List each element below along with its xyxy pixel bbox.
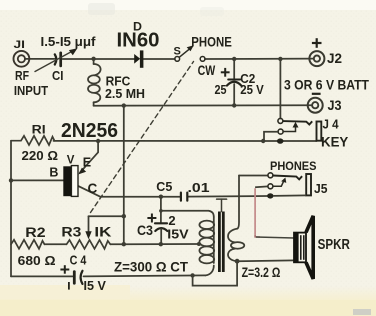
plus sign J2 [312,38,322,48]
capacitor C2 leads [233,59,235,78]
svg-text:C: C [88,181,98,196]
switch S throw contact [200,57,205,62]
wire: S contact to J2 [205,58,314,60]
C4 polarity tick [68,282,70,290]
svg-text:J5: J5 [314,181,328,196]
svg-text:I.5-I5 μμf: I.5-I5 μμf [41,35,97,49]
node: C3 bias rail junction [159,242,163,246]
inductor RFC coil [93,59,95,64]
svg-text:Z=3.2 Ω: Z=3.2 Ω [242,264,281,280]
wire: J4 lower contact to rail [264,132,278,141]
svg-text:IN60: IN60 [117,29,160,52]
svg-text:JI: JI [14,39,26,51]
svg-text:S: S [174,46,181,58]
plus sign C4 [60,265,69,274]
jack J5 tip arm [273,176,302,180]
wire: collector rail to C5 [101,196,181,198]
svg-text:PHONE: PHONE [191,34,232,49]
svg-text:RF: RF [15,69,29,83]
wire: transformer primary bottom exit [206,266,214,276]
node: transformer CT junction [197,242,201,246]
node: base junction [9,178,13,182]
wire: R2 to R3 [45,243,67,245]
capacitor C2 plates [228,79,240,81]
wire: C5 to phones jack dot [188,195,268,198]
wire: C3 bottom lead [160,229,162,244]
jack J1 RF input [14,51,30,67]
switch S arm arrowhead [187,45,194,51]
R3 wiper arrowhead [85,231,91,239]
wire: speaker top feed (red) [254,188,256,235]
wire: J1 to C1 [25,58,55,60]
jack J5 sleeve bar [306,174,311,195]
svg-text:B: B [49,166,58,180]
transistor Q1 2N256 body [63,166,71,196]
wire: lower rail RFC to J3 [94,104,313,107]
svg-text:I5V: I5V [167,227,189,242]
node: under-transformer tap [190,273,194,277]
jack J4 tip contact [278,118,283,123]
svg-text:2N256: 2N256 [61,119,118,142]
svg-text:RI: RI [32,122,46,136]
svg-text:Z=300 Ω CT: Z=300 Ω CT [114,259,188,275]
emitter arrowhead [78,168,86,175]
wire: collector lead [78,186,101,197]
svg-text:C 4: C 4 [70,253,87,267]
wire: phones jack tip contact down to secondary [237,176,239,229]
svg-text:E: E [83,156,91,170]
svg-text:KEY: KEY [321,133,349,149]
wire: J5 lower contact arm to red wire [255,185,268,188]
svg-text:C3: C3 [137,223,153,238]
transformer T1 core [218,212,225,273]
wire: middle rail R1 to key jack [54,140,317,142]
transformer core frame tie [217,199,227,211]
svg-text:J 4: J 4 [323,117,340,132]
wire: C1 to diode D [63,58,135,60]
jack J4 tip arm [283,121,312,124]
jack J5 contact arm with arrow [273,181,284,186]
jack J4 sleeve bar [317,122,322,141]
svg-text:3 OR 6 V BATT: 3 OR 6 V BATT [284,78,369,93]
svg-text:25 V: 25 V [240,82,264,97]
resistor R2 [11,240,45,249]
plus sign C3 [147,214,156,223]
node: J4 rail blob [277,138,284,143]
node: C2 bottom junction [232,103,236,107]
jack J4 lower contact [278,129,283,134]
svg-text:J2: J2 [327,51,342,66]
svg-text:I5 V: I5 V [84,279,107,293]
svg-text:SPKR: SPKR [318,237,351,253]
svg-text:R2: R2 [25,225,45,240]
svg-text:2.5 MH: 2.5 MH [105,86,145,101]
jack J5 tip contact [268,173,273,178]
wire: left rail vertical [10,141,12,277]
svg-text:CW: CW [198,63,216,78]
svg-text:.01: .01 [188,180,210,195]
minus sign J3 [312,93,321,95]
wire: secondary bottom to speaker [237,259,294,262]
node: transformer top tap [159,209,163,213]
svg-text:680 Ω: 680 Ω [18,253,56,268]
transformer T1 primary winding [213,217,215,263]
svg-text:IK: IK [94,224,111,239]
node: RFC tap junction [91,57,95,61]
wire: vertical x124 rail to R3 wiper rail [123,106,125,245]
transformer T1 secondary winding [228,229,237,243]
node: secondary bottom junction [235,259,240,264]
wire: tap to transformer primary top [161,211,214,217]
node: emitter junction [96,139,100,143]
node: C3 tap junction [159,195,163,199]
node: lower rail x124 junction [122,103,126,107]
capacitor C4 plates [73,272,76,284]
C1 arrow [35,51,74,72]
dashed gang link R3 to S [91,62,194,213]
variable capacitor C1 plates [55,54,57,64]
wire: C3 top lead [160,197,162,223]
wire: J2 junction down to key jack contact [279,59,281,118]
wire: under transformer link [193,263,238,286]
svg-text:J3: J3 [328,98,342,113]
wire: base lead [11,179,64,181]
capacitor C3 plates [155,222,167,224]
diode D 1N60 [134,54,140,64]
svg-text:CI: CI [52,69,63,83]
node: wiper junction [122,214,126,218]
node: x124 bias rail junction [122,242,126,246]
svg-text:R3: R3 [61,224,82,239]
speaker SPKR voice coil [294,233,306,263]
svg-text:220 Ω: 220 Ω [22,148,59,163]
jack J5 lower contact [268,184,273,189]
C1 arrowhead [69,48,78,55]
wire: bottom rail C4 to transformer [84,275,206,276]
node: J2/J4 branch junction [278,57,282,61]
svg-text:PHONES: PHONES [270,159,317,173]
terminal J2 battery plus [309,51,324,66]
jack J4 contact arm with arrow [283,127,295,132]
switch S pole [175,48,191,61]
resistor R1 [11,136,55,145]
node: C2 top junction [232,57,236,61]
svg-text:V: V [67,154,75,166]
plus sign C2 [221,68,230,77]
svg-text:25: 25 [215,82,227,97]
node: J5 sleeve junction [267,193,273,198]
resistor R3 [67,240,111,249]
svg-text:C5: C5 [156,179,172,194]
terminal J3 battery minus [308,98,323,113]
wire: J5 junction to sleeve bar [273,194,306,197]
capacitor C5 plates [180,193,182,201]
wire: bottom rail left to C4 [11,275,73,277]
R3 wiper arm [89,215,124,217]
wire: diode to switch S [144,58,176,60]
node: J4 lower contact junction [261,139,265,143]
wire: emitter lead [80,141,98,173]
wire: R3 to transformer center tap [110,243,199,245]
svg-text:INPUT: INPUT [14,83,48,98]
speaker SPKR cone [306,216,313,279]
